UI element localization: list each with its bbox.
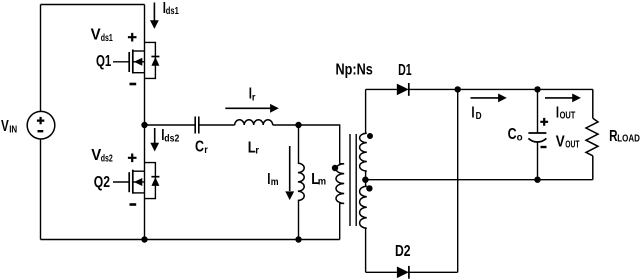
wire Lm top lead: [297, 125, 300, 163]
label minus Co: [541, 146, 547, 148]
junction dot Co bottom: [534, 177, 540, 183]
wire top rail: [41, 4, 145, 6]
wire Lm bottom lead: [297, 201, 300, 240]
label Cr: [195, 139, 208, 156]
svg-text:V: V: [556, 134, 566, 151]
label RLOAD: [609, 128, 640, 145]
label plus Vds1: [128, 33, 137, 42]
transformer secondary lower winding: [360, 186, 367, 228]
wire node A to Cr: [145, 124, 196, 126]
svg-text:o: o: [517, 132, 523, 143]
current arrow Im: [285, 146, 294, 200]
label Vds1: [91, 26, 113, 44]
wire D1 cathode to node: [409, 88, 458, 90]
current arrow Ids2: [150, 128, 159, 152]
svg-text:V: V: [91, 26, 102, 43]
body diode Q1: [145, 42, 160, 78]
label Im: [267, 171, 278, 188]
wire secondary top lead: [365, 89, 367, 133]
transformer core: [350, 134, 356, 226]
diode D1: [397, 83, 409, 96]
wire D1 anode: [366, 88, 397, 90]
svg-text:r: r: [204, 145, 208, 156]
label IOUT: [556, 104, 575, 121]
mosfet Q1: [113, 50, 145, 74]
svg-text:V: V: [1, 118, 9, 135]
node D1 junction dot: [455, 86, 461, 92]
voltage source VIN: [27, 111, 55, 139]
label Ids1: [163, 0, 179, 17]
svg-text:ds1: ds1: [101, 33, 113, 44]
svg-text:LOAD: LOAD: [617, 134, 640, 145]
diode D2: [397, 266, 409, 279]
wire output top rail: [458, 88, 593, 90]
junction dot center tap: [362, 177, 368, 183]
wire Q2 branch: [144, 125, 146, 240]
wire Cr to Lr: [199, 124, 235, 126]
label Co: [508, 126, 523, 143]
svg-text:ds2: ds2: [164, 134, 179, 145]
label plus Vds2: [128, 154, 137, 163]
transformer primary winding: [336, 164, 344, 204]
mosfet Q2: [113, 170, 145, 194]
svg-text:m: m: [318, 177, 326, 188]
svg-text:I: I: [471, 104, 474, 121]
capacitor Cr: [195, 117, 199, 134]
label Lm: [311, 171, 326, 188]
wire rectifier riser: [457, 89, 459, 272]
label Ir: [249, 85, 256, 103]
transformer secondary upper winding: [360, 133, 367, 171]
svg-text:Np:Ns: Np:Ns: [336, 62, 373, 79]
current arrow Ids1: [150, 3, 159, 29]
svg-text:R: R: [609, 128, 617, 145]
polarity dot secondary lower: [366, 185, 372, 191]
current arrow Ir: [225, 104, 278, 113]
node A junction dot: [141, 122, 147, 128]
body diode Q2: [145, 163, 160, 199]
svg-text:C: C: [508, 126, 517, 143]
resistor RLOAD: [586, 89, 598, 179]
label minus Vds2: [130, 203, 137, 206]
inductor Lm: [298, 163, 304, 200]
wire D2 cathode: [409, 271, 458, 273]
svg-text:ds1: ds1: [166, 6, 179, 17]
svg-text:m: m: [271, 177, 279, 188]
label Lr: [248, 140, 259, 157]
svg-text:D: D: [476, 111, 482, 122]
label ID: [471, 104, 481, 122]
inductor Lr: [235, 120, 273, 125]
wire Q1 drain branch: [144, 5, 146, 126]
wire secondary center tap lead: [365, 171, 367, 186]
svg-text:Q2: Q2: [94, 174, 110, 191]
junction dot Q2 source to bottom rail: [141, 236, 147, 242]
svg-text:Q1: Q1: [96, 53, 112, 70]
node B junction dot: [295, 122, 301, 128]
wire left rail lower: [40, 139, 42, 239]
label Vds2: [91, 147, 113, 165]
wire left rail upper: [40, 5, 42, 112]
wire secondary bottom lead: [365, 228, 367, 272]
label plus Co: [540, 118, 548, 126]
junction dot Co top: [534, 86, 540, 92]
wire D2 anode: [366, 271, 397, 273]
junction dot Lm bottom: [295, 236, 301, 242]
svg-text:ds2: ds2: [101, 154, 113, 165]
svg-text:D2: D2: [395, 243, 411, 260]
label VOUT: [556, 134, 580, 151]
wire Lr to node B: [273, 124, 299, 126]
svg-text:r: r: [255, 146, 259, 157]
label Ids2: [161, 127, 179, 145]
wire bottom rail: [41, 239, 340, 241]
capacitor Co: [528, 89, 546, 179]
svg-text:OUT: OUT: [560, 110, 576, 121]
current arrow ID: [471, 94, 507, 103]
svg-text:IN: IN: [9, 125, 17, 136]
label VIN: [1, 118, 17, 135]
svg-text:OUT: OUT: [565, 140, 579, 151]
svg-text:C: C: [195, 139, 204, 156]
label minus Vds1: [130, 83, 137, 86]
wire primary bottom lead: [339, 203, 341, 239]
svg-text:r: r: [252, 92, 256, 103]
polarity dot secondary upper: [367, 133, 373, 139]
polarity dot primary: [332, 165, 338, 171]
wire output bottom rail center tap: [365, 179, 592, 181]
wire node B to primary: [299, 125, 340, 164]
current arrow IOUT: [545, 94, 581, 103]
svg-text:D1: D1: [398, 62, 412, 79]
